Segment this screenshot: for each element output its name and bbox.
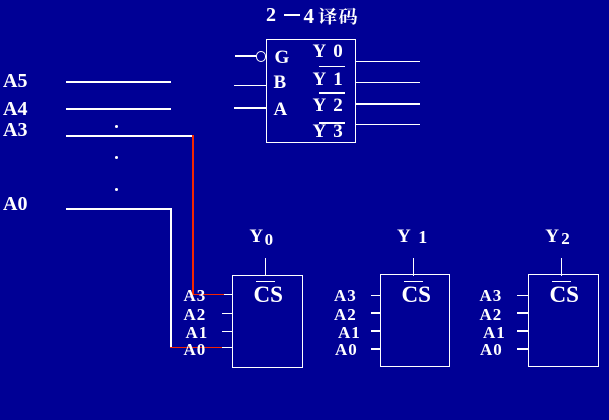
wire stub chip2 A2	[371, 312, 382, 314]
inversion bubble on G	[256, 51, 267, 62]
decoder pin label G	[275, 47, 290, 69]
node label A3	[3, 119, 27, 142]
decoder pin label B	[274, 72, 287, 94]
pin label U4 A1	[483, 323, 506, 343]
overbar of Y2	[319, 92, 345, 94]
pin label U2 A3	[184, 286, 207, 306]
wire A5	[66, 81, 171, 83]
decoder pin label A	[274, 99, 288, 121]
wire stub chip3 A2	[517, 312, 528, 314]
pin label U3 A2	[334, 305, 357, 325]
pin label U2 A1	[186, 323, 209, 343]
wire Y1 output	[356, 82, 420, 84]
pin label U4 A2	[480, 305, 503, 325]
wire Y3 output	[356, 124, 420, 126]
wire stub chip1 A3	[224, 294, 233, 296]
wire A3	[66, 135, 193, 137]
title hanzi yi-ma (decode)	[318, 6, 360, 26]
wire stub chip3 A3	[517, 295, 528, 297]
wire stub chip3 A1	[517, 330, 528, 332]
red wire A3 vertical	[192, 135, 194, 294]
wire G input	[235, 55, 256, 57]
pin label U3 A0	[335, 340, 358, 360]
wire stub chip2 A0	[371, 348, 382, 350]
wire stub chip1 A0	[222, 347, 233, 349]
memory chip U2 box	[232, 275, 303, 368]
pin label U4 A0	[480, 340, 503, 360]
node label A5	[3, 70, 27, 93]
wire A4	[66, 108, 171, 110]
net label Y1	[397, 226, 411, 248]
wire Y0 select stub	[265, 258, 267, 276]
ellipsis dot 1	[115, 125, 118, 128]
net label Y2	[545, 226, 559, 248]
wire stub chip3 A0	[517, 348, 528, 350]
overbar of Y3	[319, 122, 345, 124]
memory chip U3 box	[380, 274, 450, 367]
decoder output label Y2	[313, 95, 343, 117]
chip U3 CS overbar	[404, 281, 423, 283]
chip U4 CS overbar	[552, 281, 571, 283]
wire stub chip1 A2	[222, 313, 233, 315]
ellipsis dot 2	[115, 156, 118, 159]
memory chip U4 box	[528, 274, 599, 367]
chip U2 CS overbar	[256, 281, 275, 283]
wire A0 vertical	[170, 208, 172, 347]
net label Y0	[249, 226, 263, 248]
wire stub chip2 A1	[371, 330, 382, 332]
node label A4	[3, 98, 27, 121]
title "2 - 4 decode"	[266, 4, 276, 27]
wire stub chip1 A1	[222, 331, 233, 333]
pin label U3 A3	[334, 286, 357, 306]
pin label U4 A3	[480, 286, 503, 306]
pin label U2 A2	[184, 305, 207, 325]
wire Y2 output	[356, 103, 420, 105]
chip U3 CS label	[402, 282, 431, 308]
red wire A3 horizontal	[192, 294, 224, 296]
node label A0	[3, 193, 27, 216]
title dash	[284, 14, 300, 16]
wire Y2 select stub	[561, 258, 563, 276]
ellipsis dot 3	[115, 188, 118, 191]
wire A input	[234, 107, 267, 109]
decoder output label Y3	[313, 121, 343, 143]
decoder output label Y0	[313, 41, 343, 63]
wire A0	[66, 208, 172, 210]
chip U2 CS label	[254, 282, 283, 308]
title digit 4	[304, 4, 315, 29]
decoder U1 box	[266, 39, 357, 143]
overbar of Y1	[319, 66, 345, 68]
decoder output label Y1	[313, 69, 343, 91]
pin label U3 A1	[338, 323, 361, 343]
wire B input	[234, 85, 267, 87]
chip U4 CS label	[550, 282, 579, 308]
wire Y1 select stub	[413, 258, 415, 276]
wire stub chip2 A3	[371, 295, 382, 297]
wire Y0 output	[356, 61, 420, 63]
red wire A0 horizontal	[170, 347, 223, 349]
pin label U2 A0	[184, 340, 207, 360]
